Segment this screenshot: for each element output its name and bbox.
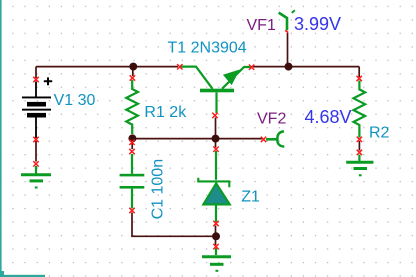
svg-text:V1 30: V1 30 bbox=[54, 92, 96, 109]
svg-text:C1 100n: C1 100n bbox=[149, 159, 166, 220]
svg-text:Z1: Z1 bbox=[241, 188, 260, 205]
svg-text:VF2: VF2 bbox=[257, 110, 286, 127]
svg-text:T1 2N3904: T1 2N3904 bbox=[168, 39, 247, 56]
svg-text:VF1: VF1 bbox=[247, 17, 276, 34]
svg-text:R1 2k: R1 2k bbox=[144, 104, 187, 121]
svg-text:3.99V: 3.99V bbox=[294, 14, 341, 34]
svg-text:R2: R2 bbox=[369, 125, 390, 142]
svg-text:4.68V: 4.68V bbox=[305, 107, 352, 127]
